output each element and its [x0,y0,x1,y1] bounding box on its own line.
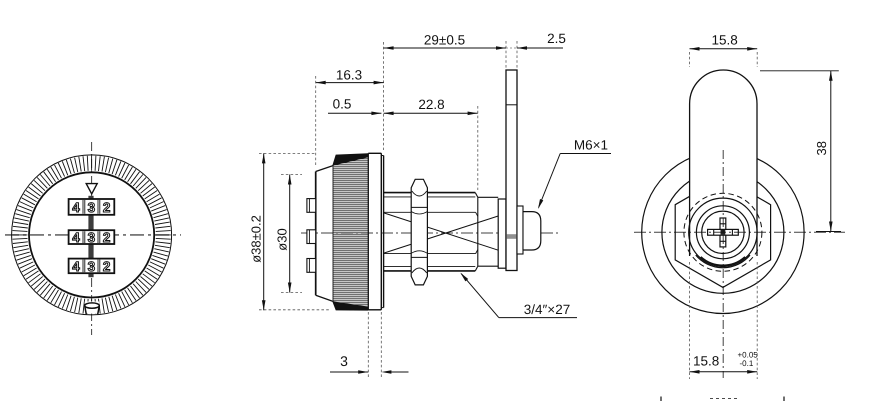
svg-text:15.8: 15.8 [711,33,737,48]
svg-text:-0.1: -0.1 [740,359,754,368]
dome nut M6 [523,212,541,250]
dim 15.8 ext lines [689,52,691,67]
dial inner circle [29,172,154,297]
hex nut outline [411,179,427,285]
svg-text:ø38±0.2: ø38±0.2 [248,215,263,263]
digit window row 1 frame [69,199,115,215]
cam bend line [506,104,517,106]
reset post ellipse [85,303,100,308]
svg-text:22.8: 22.8 [418,97,444,112]
reset post sides [85,306,87,314]
retaining ring arc inner [701,257,745,265]
bottom 15.8 ext lines [689,262,691,379]
svg-text:29±0.5: 29±0.5 [424,33,465,48]
thread end chamfer bottom [475,266,478,271]
dimension 15.8 bottom [690,371,758,373]
dimension ø30 [289,175,291,293]
digit window row 3 separators [82,260,84,273]
thumbwheel tab 2 [307,230,316,244]
keyway vertical slot [720,218,726,247]
spacer washer [498,199,506,268]
head cone top edge [316,154,369,172]
svg-text:3: 3 [88,200,96,215]
border tick right [783,397,785,401]
thread dashed circle [684,193,762,271]
dimension 38 [830,71,832,232]
head knurl hatch [333,155,368,309]
dimension 29±0.5 [384,47,506,49]
svg-text:2: 2 [103,259,111,274]
svg-text:3: 3 [340,353,348,369]
flange rear edge [380,153,382,309]
step plate [383,156,385,308]
rear horizontal centerline [634,231,845,233]
side view centerline [301,232,558,234]
wheel shaft [88,196,93,277]
svg-text:3: 3 [88,259,96,274]
rear view flange circle [662,171,784,293]
dimension 0.5 [328,112,381,114]
hex nut facet line lower [411,256,427,258]
dimension ø30 extension bottom [281,292,302,294]
dimension 15.8 top [690,48,758,50]
shank bottom edge [478,265,498,267]
dim line continuation 29 to cam [506,47,517,49]
svg-text:2: 2 [103,200,111,215]
dimension 2.5 [517,47,563,49]
border dash [710,398,738,400]
thread bottom edge [384,270,476,272]
extension line head face [315,76,317,167]
head cone bottom edge [316,295,369,310]
svg-text:16.3: 16.3 [336,68,362,83]
cam hub mark [507,234,517,239]
digit window row 2 separators [82,231,84,243]
svg-text:2.5: 2.5 [547,31,566,46]
index triangle marker [86,184,97,194]
surface diagonal 1 [384,213,498,250]
thread bottom minor line [384,266,476,268]
collar circle [689,198,757,266]
svg-text:ø30: ø30 [274,228,289,250]
svg-text:2: 2 [103,230,111,245]
svg-text:0.5: 0.5 [333,97,352,112]
rear view outer circle [642,151,804,313]
thumbwheel tab 1 [307,199,316,213]
cam rear view [690,70,757,256]
dial vertical centerline [91,142,93,335]
knurl bottom shadow wedge [333,301,368,310]
hex nut chamfer arc top [412,191,427,196]
dial knurl ticks [12,156,170,314]
extension line cam right [516,41,518,68]
extension line flange rear [380,312,382,378]
cam washer [517,206,523,254]
hex nut chamfer arc bottom [412,268,427,273]
core top line [384,211,476,213]
dimension ø38±0.2 [263,153,265,310]
dial outer circle [12,155,172,315]
border tick left [660,397,662,401]
dial horizontal centerline [5,234,181,236]
svg-text:4: 4 [72,230,80,245]
keyway tip divisions [713,229,715,235]
plug circle [696,206,749,259]
svg-text:3: 3 [88,230,96,245]
extension line cam left [505,41,507,68]
thread end chamfer top [475,193,478,198]
knurl top shadow wedge [333,154,368,166]
keyway dark center [721,230,726,235]
surface diagonal 2 [384,216,498,253]
svg-text:4: 4 [72,259,80,274]
dimension ø38±0.2 extension top [259,152,316,154]
centerline stub at 38 dim [816,231,841,233]
flange top edge [368,152,381,154]
leader 3/4x27 [499,317,577,319]
dim 38 extension [760,70,839,72]
hex nut facet line upper [411,206,427,208]
extension line flange front [367,312,369,378]
dimension 16.3 [316,82,384,84]
dimension 22.8 [384,112,478,114]
dimension 3 [330,371,368,373]
extension line body face [383,42,385,150]
thread top edge [384,192,476,194]
thread top minor line [384,196,476,198]
dimension ø30 extension top [281,174,302,176]
keyway circle [702,211,744,253]
cam plate [506,70,517,271]
svg-text:4: 4 [72,200,80,215]
svg-text:3/4″×27: 3/4″×27 [524,302,570,317]
svg-text:15.8: 15.8 [693,354,719,369]
rear vertical centerline [722,150,724,378]
core bottom line [384,253,476,255]
hex nut mid arc upper [411,212,427,215]
dimension ø38±0.2 extension bottom [259,309,331,311]
leader M6x1 [560,153,611,155]
thumbwheel tab 3 [307,259,316,273]
digit window row 3 frame [69,259,115,274]
retaining ring arc outer [696,255,750,268]
rear hex nut [675,177,770,287]
digit window row 1 separators [82,200,84,214]
digit window row 2 frame [69,230,115,244]
hex nut mid arc lower [411,251,427,254]
svg-text:38: 38 [814,141,829,155]
flange bottom edge [368,309,381,311]
extension line thread end [477,106,479,190]
reset post blank [85,302,100,314]
head front face [315,172,317,296]
svg-text:M6×1: M6×1 [574,138,608,153]
shank top edge [478,196,498,198]
shank end face [477,197,479,266]
flange front edge [367,153,369,309]
knurl left edge [332,167,334,301]
keyway horizontal slot [708,229,739,235]
